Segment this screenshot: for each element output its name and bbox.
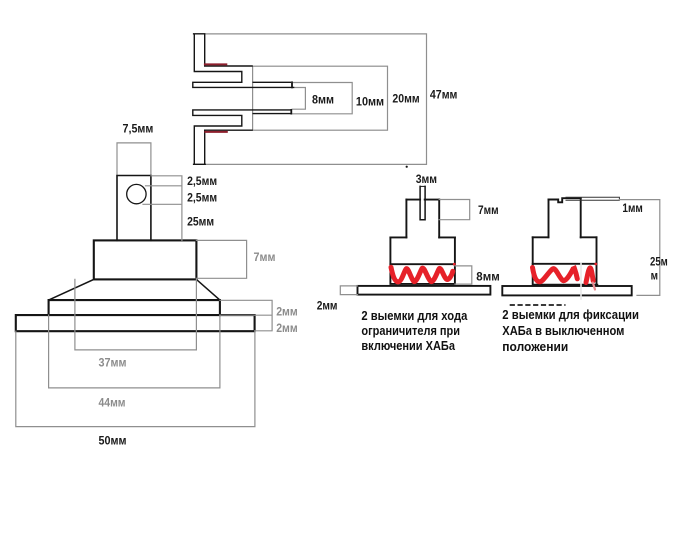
- svg-text:8мм: 8мм: [312, 92, 334, 106]
- svg-text:включении ХАБа: включении ХАБа: [361, 338, 455, 353]
- base plate: [358, 286, 491, 295]
- lower plate: [16, 315, 255, 331]
- upper tier sides: [549, 198, 581, 237]
- svg-text:2 выемки для хода: 2 выемки для хода: [361, 308, 468, 323]
- small gray box between tongue tips: [292, 88, 305, 110]
- small gray box left of base: [340, 286, 357, 295]
- small dot below box: [406, 166, 408, 168]
- svg-text:50мм: 50мм: [99, 433, 127, 447]
- band box: [533, 264, 598, 285]
- stem black part: [16, 176, 255, 332]
- upper plate: [49, 300, 220, 315]
- body block: [94, 240, 197, 279]
- stem gray upper part (7.5mm box): [117, 143, 151, 176]
- 25mm bracket gray: [619, 200, 659, 296]
- dashed erased text: [510, 304, 566, 306]
- svg-text:37мм: 37мм: [99, 355, 127, 369]
- svg-text:25м: 25м: [650, 255, 668, 269]
- lower tier sides: [533, 237, 597, 263]
- 8mm box (gray): [292, 83, 352, 114]
- svg-text:2,5мм: 2,5мм: [187, 174, 217, 188]
- red mark right part: [586, 268, 593, 283]
- step: [533, 236, 597, 238]
- outer 47mm box (gray): [205, 34, 427, 165]
- svg-text:10мм: 10мм: [356, 94, 384, 108]
- 7mm box right of body: [196, 240, 246, 278]
- top edge: [406, 199, 439, 201]
- svg-text:м: м: [651, 269, 658, 283]
- fig3 labels: [622, 201, 667, 282]
- slot: [420, 186, 425, 219]
- 44mm box: [49, 315, 220, 388]
- left figure labels: [99, 122, 218, 448]
- svg-text:ограничителя при: ограничителя при: [361, 323, 460, 338]
- top edge with notch: [549, 198, 581, 202]
- svg-text:3мм: 3мм: [416, 172, 437, 186]
- fig2 labels: [317, 172, 500, 313]
- svg-text:2,5мм: 2,5мм: [187, 191, 217, 205]
- red mark bottom: [205, 131, 226, 133]
- 10mm box (gray): [253, 66, 388, 130]
- svg-text:2 выемки для фиксации: 2 выемки для фиксации: [502, 307, 639, 322]
- 2mm boxes right of plates: [220, 300, 272, 331]
- svg-text:ХАБа в выключенном: ХАБа в выключенном: [502, 323, 624, 338]
- svg-text:положении: положении: [502, 339, 568, 354]
- svg-text:2мм: 2мм: [276, 304, 298, 318]
- step: [390, 236, 455, 238]
- red mark top: [205, 63, 226, 65]
- gray dimension lines: stem bracket: [16, 176, 272, 427]
- svg-text:7мм: 7мм: [478, 203, 499, 217]
- svg-text:2мм: 2мм: [276, 321, 298, 335]
- svg-text:7мм: 7мм: [254, 250, 276, 264]
- 7mm box gray: [439, 200, 470, 220]
- svg-text:20мм: 20мм: [392, 91, 419, 105]
- red squiggle: [391, 267, 453, 282]
- trapezoid slants: [49, 279, 220, 300]
- svg-text:25мм: 25мм: [187, 215, 214, 229]
- comb black outline bottom claw: [193, 110, 291, 164]
- 1mm thin box: [566, 197, 619, 200]
- 8mm box gray: [455, 266, 472, 284]
- base plate: [502, 286, 631, 295]
- band box: [390, 264, 455, 284]
- svg-text:2мм: 2мм: [317, 299, 338, 313]
- hole circle: [127, 184, 146, 203]
- fig3 caption: [502, 307, 639, 354]
- lower tier sides: [390, 237, 455, 264]
- red squiggle left part: [533, 268, 578, 282]
- svg-text:47мм: 47мм: [430, 88, 458, 102]
- 37mm box: [75, 279, 196, 350]
- svg-text:7,5мм: 7,5мм: [123, 122, 154, 136]
- svg-text:8мм: 8мм: [476, 270, 499, 284]
- 50mm box: [16, 331, 255, 426]
- svg-text:1мм: 1мм: [622, 201, 642, 215]
- upper tier sides: [406, 200, 439, 238]
- fig2 caption: [361, 308, 468, 353]
- comb black outline top claw: [193, 34, 294, 88]
- thin vertical line through band/base: [580, 263, 582, 299]
- svg-text:44мм: 44мм: [99, 396, 126, 410]
- comb labels: [312, 88, 457, 109]
